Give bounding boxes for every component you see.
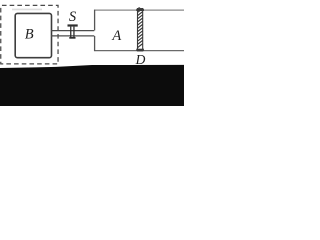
- piston D hatched bar: [136, 7, 144, 51]
- piston bottom cap: [136, 49, 144, 51]
- stopcock S symbol: [68, 24, 78, 38]
- tube bottom wall: [51, 35, 94, 37]
- scan smudge above B: [12, 9, 42, 11]
- svg-text:A: A: [111, 28, 121, 44]
- cylinder A left wall upper segment: [94, 10, 96, 31]
- svg-text:D: D: [135, 52, 146, 67]
- svg-text:S: S: [69, 9, 77, 25]
- black table/page edge band: [0, 65, 184, 106]
- piston top cap: [136, 9, 144, 11]
- cylinder A left wall lower segment: [94, 36, 96, 51]
- svg-text:B: B: [25, 27, 34, 43]
- dashed enclosure (thermostat boundary): [1, 5, 58, 64]
- piston top nub: [138, 7, 140, 9]
- cylinder A bottom wall: [94, 50, 184, 52]
- tube top wall: [51, 30, 94, 32]
- cylinder A top wall: [94, 9, 184, 11]
- vessel B box: [15, 13, 51, 57]
